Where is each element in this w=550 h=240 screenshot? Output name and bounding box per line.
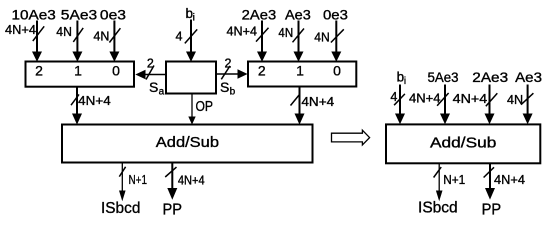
svg-text:4N+4: 4N+4 [5,23,36,37]
svg-text:2Ae3: 2Ae3 [472,70,508,85]
net label Sa [149,79,165,98]
wire ISbcd output of A2 [436,164,443,202]
svg-text:2: 2 [225,57,232,71]
svg-text:N+1: N+1 [129,173,148,187]
bus slash 2 on Sa wire [146,66,154,80]
svg-text:0: 0 [333,63,341,79]
svg-text:ISbcd: ISbcd [418,200,458,217]
svg-text:N+1: N+1 [443,173,465,187]
net label Sb [220,79,236,98]
label bi [186,6,195,24]
wire input 2Ae3 to mux M2 port 2 [257,21,267,62]
bus slash 4 on bi wire [185,29,197,43]
label bi right [397,70,407,88]
bus slash 4N+4 on A2 PP wire [484,167,494,177]
svg-text:4N+4: 4N+4 [178,173,205,187]
bus slash 4N+4 on M1 output [71,94,79,105]
bus slash 4N on 0e3 wire [331,29,344,42]
svg-text:i: i [404,76,406,87]
svg-text:4N+4: 4N+4 [494,173,525,187]
wire 2Ae3 to adder A2 [485,85,495,125]
bus slash 2 on Sb wire [221,66,230,79]
wire Ae3 to adder A2 [523,85,533,125]
bus slash 4N on Ae3 wire [293,29,305,43]
svg-text:4N: 4N [56,25,72,39]
bus slash N+1 on ISbcd wire [119,167,125,177]
svg-text:Ae3: Ae3 [285,7,311,22]
wire input 5Ae3 to mux M1 port 1 [72,21,82,62]
svg-text:0e3: 0e3 [100,7,126,22]
svg-text:PP: PP [163,202,183,219]
wire input 0e3 to mux M1 port 0 [109,21,119,62]
svg-text:S: S [149,79,158,95]
adder block A2 Add/Sub [386,124,540,163]
svg-text:4N: 4N [278,26,293,40]
wire mux M2 output to adder A1 [295,87,305,125]
svg-text:4N+4: 4N+4 [409,92,441,106]
wire mux M1 output to adder A1 [72,87,82,125]
svg-text:Ae3: Ae3 [515,70,542,85]
bus slash 4N+4 on 2Ae3 wire right [486,93,498,106]
svg-text:2Ae3: 2Ae3 [242,7,277,22]
wire 5Ae3 to adder A2 [440,85,450,125]
svg-text:2: 2 [258,63,266,79]
svg-text:4: 4 [176,30,183,44]
svg-text:ISbcd: ISbcd [101,200,140,217]
svg-text:1: 1 [74,63,82,79]
bus slash 4N+4 on 5Ae3 wire right [437,93,449,106]
svg-text:Add/Sub: Add/Sub [430,135,496,151]
svg-text:4N+4: 4N+4 [453,92,488,106]
bus slash 4N on 5Ae3 wire [73,28,83,42]
wire Sa select from control U1 to mux M1 [135,70,165,80]
bus slash 4 on bi wire right [394,94,405,105]
svg-text:Add/Sub: Add/Sub [156,135,219,151]
bus slash 4N+4 on M2 output [291,95,300,106]
adder block A1 Add/Sub [62,125,313,163]
svg-text:4N+4: 4N+4 [301,95,334,109]
svg-text:b: b [230,86,236,97]
wire PP output of A2 [485,164,495,200]
svg-text:i: i [193,13,195,24]
mux M2 box [248,62,356,87]
bus slash 4N+4 on PP wire [165,167,176,177]
bus slash 4N on Ae3 wire right [521,93,533,105]
svg-text:OP: OP [196,99,214,115]
svg-text:a: a [159,86,165,97]
svg-text:0e3: 0e3 [323,7,348,22]
wire OP from control U1 to adder A1 [188,94,195,125]
svg-text:10Ae3: 10Ae3 [12,7,56,22]
wire input 10Ae3 to mux M1 port 2 [32,21,42,62]
svg-text:4N+4: 4N+4 [78,94,111,108]
svg-text:S: S [220,79,229,95]
wire input 0e3 to mux M2 port 0 [331,21,341,62]
bus slash 4N on 0e3 wire [109,28,120,42]
svg-text:5Ae3: 5Ae3 [61,7,97,22]
svg-text:5Ae3: 5Ae3 [428,70,459,85]
control box U1 [166,62,216,94]
svg-text:4N: 4N [314,31,330,45]
svg-text:2: 2 [147,57,154,71]
mux M1 box [26,62,135,87]
big implication arrow [332,130,370,145]
svg-text:PP: PP [482,202,502,219]
svg-text:1: 1 [296,63,304,79]
wire Sb select from control U1 to mux M2 [216,69,247,78]
svg-text:4: 4 [390,90,397,104]
bus slash 4N+4 on 10Ae3 wire [33,26,44,41]
wire input Ae3 to mux M2 port 1 [294,21,304,62]
svg-text:4N: 4N [93,29,109,43]
wire bi to adder A2 [395,85,405,125]
svg-text:4N+4: 4N+4 [227,24,258,38]
wire ISbcd output of A1 [119,164,126,202]
svg-text:0: 0 [112,63,120,79]
wire bi to control U1 [186,20,196,62]
svg-text:2: 2 [35,63,43,79]
bus slash 4N+4 on 2Ae3 wire [256,28,269,42]
wire PP output of A1 [167,164,177,200]
svg-text:4N: 4N [507,93,523,107]
bus slash N+1 on A2 ISbcd wire [434,167,442,177]
